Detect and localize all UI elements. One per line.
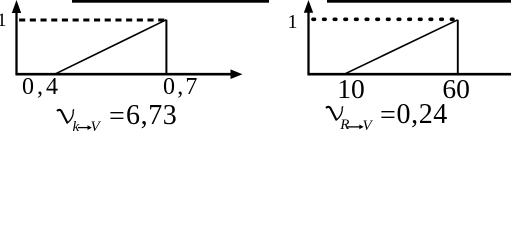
right formula: equals sign xyxy=(380,102,396,130)
right formula: value 0,24 xyxy=(397,101,448,129)
left plot: y-axis arrowhead xyxy=(12,0,21,13)
right plot: y-axis arrowhead xyxy=(304,0,313,13)
left formula: subscript k xyxy=(73,120,80,135)
right formula: subscript R xyxy=(340,118,349,133)
left plot: right vertical edge of triangle xyxy=(165,20,167,75)
right plot: right vertical edge of triangle xyxy=(457,20,459,75)
left formula: subscript arrow shaft xyxy=(78,127,90,129)
right formula: subscript V xyxy=(363,119,372,134)
left plot: tick label 0,7 xyxy=(163,75,200,99)
right formula: nu (italic) xyxy=(326,107,343,121)
left plot: ramp of membership function xyxy=(55,20,167,75)
left plot: dashed level line y=1 xyxy=(19,19,166,22)
right plot: tick label 10 xyxy=(337,75,365,103)
right plot: tick label 1 on y-axis xyxy=(288,12,298,32)
left formula: equals sign xyxy=(109,103,125,131)
right formula: subscript arrow shaft xyxy=(348,126,361,128)
left plot: tick label 1 on y-axis xyxy=(0,11,7,30)
left formula: nu (italic) xyxy=(57,110,74,124)
right plot: tick label 60 xyxy=(442,75,470,103)
left plot: thick top rule xyxy=(72,0,269,3)
left formula: subscript arrow head xyxy=(88,125,92,130)
right formula: subscript arrow head xyxy=(359,125,363,130)
left formula: subscript V xyxy=(91,120,100,135)
right plot: thick top rule xyxy=(327,0,511,3)
left formula: value 6,73 xyxy=(126,102,177,130)
left plot: tick label 0,4 xyxy=(22,75,61,99)
right plot: y-axis xyxy=(307,5,309,75)
left plot: x-axis xyxy=(16,73,233,76)
left plot: x-axis arrowhead xyxy=(231,69,243,79)
right plot: dotted level line y=1 xyxy=(313,17,458,21)
left plot: y-axis xyxy=(15,5,17,75)
right plot: x-axis xyxy=(308,73,511,76)
right plot: ramp of membership function xyxy=(344,20,458,75)
